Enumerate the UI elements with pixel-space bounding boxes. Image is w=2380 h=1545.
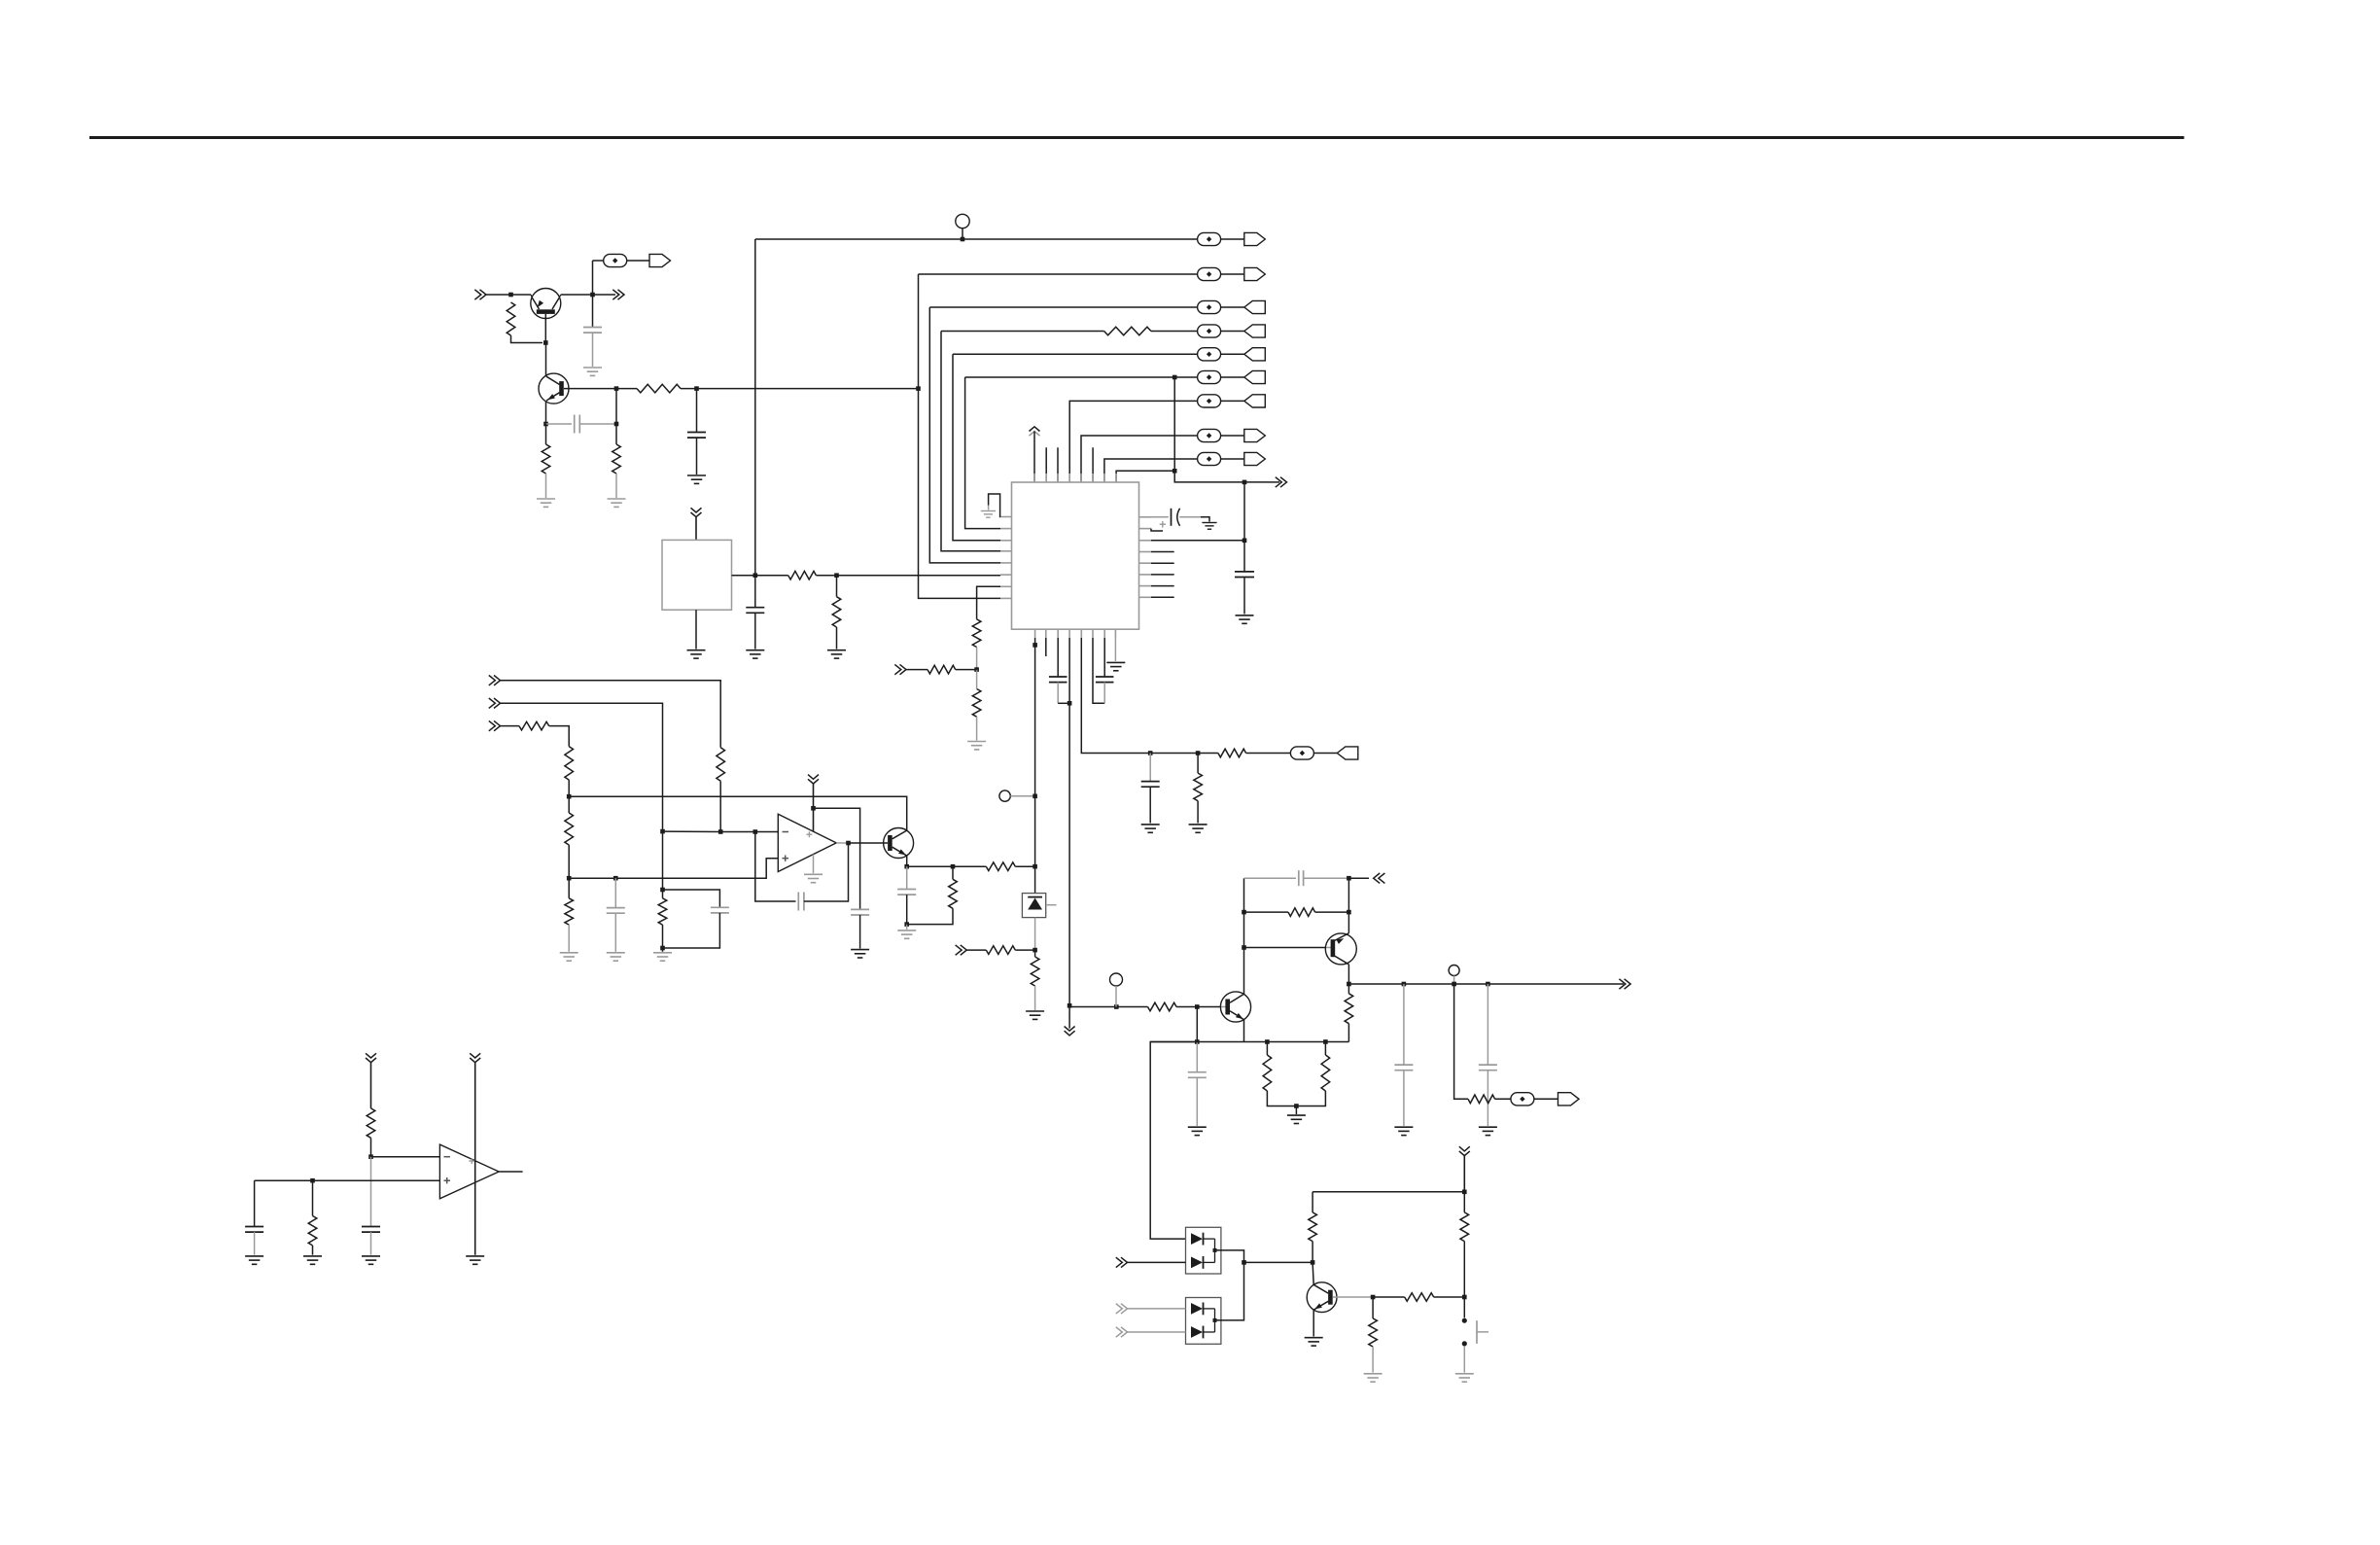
resistor R8 [972,619,981,648]
resistor R23 [1148,1002,1177,1011]
wire [719,781,721,831]
junction [1402,982,1407,987]
junction [904,922,909,927]
output chevron [1619,979,1630,989]
wire [662,890,664,898]
pin [1139,516,1152,518]
wire [486,294,531,296]
transistor Q6 [1307,1282,1337,1313]
wire opamp-gnd [813,855,815,874]
resistor R22 [1031,957,1039,986]
junction [718,829,723,834]
wire [549,726,570,747]
wire nc-pin [1092,447,1094,482]
wire bus x777 [754,239,756,576]
wire [1347,1024,1349,1042]
ground [746,650,764,658]
junction [1371,1295,1376,1300]
wire [1196,1007,1198,1042]
wire [1034,986,1036,1010]
pin [1139,574,1152,576]
wire [592,261,594,328]
wire nc-pin [1057,447,1059,482]
wire bus L4 [953,354,1000,541]
wire [593,294,616,296]
junction [508,293,513,298]
capacitor C20 [245,1227,263,1233]
power symbol [691,508,702,540]
ground [827,650,846,658]
junction [916,386,921,391]
resistor R24 [1263,1055,1272,1091]
transistor Q3 [884,828,914,859]
wire [1128,1261,1186,1263]
wire [370,1157,372,1226]
wire [1325,947,1331,949]
capacitor C13 [851,909,869,915]
wire D2 out [1215,1250,1244,1263]
wire tp-branch [1454,984,1468,1099]
wire [696,438,698,474]
connector row4 [1198,325,1266,337]
diode module D3 [1186,1298,1221,1345]
ground [1364,1374,1382,1382]
wire [1015,949,1034,951]
wire pin R1 [1151,516,1169,518]
transistor Q4 [1220,992,1250,1022]
resistor R11 [1194,773,1203,801]
capacitor C12 [798,893,804,911]
wire railA [569,796,907,830]
junction [368,1154,373,1159]
wire [254,1180,256,1226]
junction [1311,1260,1315,1265]
connector oval [1511,1093,1534,1106]
junction [660,829,665,834]
resistor R29 [1460,1212,1469,1242]
junction [1242,480,1247,485]
capacitor C7 [1049,677,1067,683]
input chevron [956,945,967,955]
diode module D1 [1022,894,1056,918]
wire pin L1 [989,494,1000,517]
wire [662,925,664,948]
junction [1067,1003,1072,1008]
connector flag [1337,747,1358,759]
wire [1373,1296,1405,1298]
wire bus L1 [919,274,1001,598]
op-amp U3 [439,1144,499,1199]
junction [1032,643,1037,648]
wire Q4 emitter [1243,1020,1245,1042]
wire [1243,482,1245,571]
wire [1198,753,1218,755]
wire [1128,1331,1186,1333]
resistor R33 [308,1216,317,1246]
wire [1312,1192,1313,1212]
wire [732,575,755,577]
wire node AF [697,388,919,390]
crystal module X1 [662,540,732,610]
junction [1067,701,1072,706]
test point TP1 [956,214,969,228]
resistor R26 [1288,908,1315,917]
resistor R4 [637,384,681,393]
wire Q3 emitter [906,856,908,866]
connector row3 [1198,300,1266,313]
wire [1015,865,1034,867]
wire row-1036 [1069,1006,1147,1008]
wire [1176,1006,1221,1008]
wire [614,913,616,952]
pin [1103,629,1105,638]
resistor R31 [1369,1318,1378,1347]
pin [1000,528,1012,530]
wire [1315,911,1349,913]
power symbol [1459,1146,1470,1192]
wire Q6 emitter [1312,1310,1314,1336]
resistor R16 [565,747,574,781]
wire row6 [965,376,1198,378]
wire [545,424,547,444]
ground [608,499,626,507]
junction [1347,982,1351,987]
wire [568,845,570,878]
op-amp U2 [778,814,836,871]
wire [568,878,570,898]
test point TP3 [1110,973,1123,986]
wire [859,915,861,949]
pin [1139,528,1152,530]
wire nc-pin [1151,574,1174,576]
wire [1068,1005,1070,1028]
pin [1092,474,1094,482]
junction [1032,948,1037,953]
ground [607,953,625,961]
resistor R2 [542,444,550,474]
wire [1034,918,1036,951]
wire [312,1180,314,1215]
junction [1462,1295,1467,1300]
wire [966,949,986,951]
capacitor C11 [711,907,729,913]
wire [627,260,649,262]
wire nc-pin [1151,551,1174,553]
pin [1139,551,1152,553]
wire [1403,984,1405,1065]
resistor R27 [1468,1095,1495,1104]
input chevron [489,676,501,685]
ground [653,953,672,961]
wire [1243,578,1245,614]
junction [974,667,979,672]
wire res-loop [1244,911,1289,913]
junction [961,237,965,242]
wire railB [814,808,860,909]
resistor R12 [1218,749,1246,757]
wire [615,389,617,424]
wire [906,866,908,889]
ground [1202,523,1216,530]
junction [543,422,548,427]
ground [1106,662,1125,670]
power symbol [470,1053,480,1254]
wire cap-line [663,890,720,907]
wire [1201,517,1209,522]
wire [592,333,594,367]
ground [687,650,706,658]
ground [245,1256,263,1264]
wire [1174,377,1267,482]
junction [1452,982,1456,987]
wire [976,670,978,689]
junction [567,794,572,799]
wire nc-pin [1151,562,1174,564]
wire output [836,842,848,844]
wire [695,610,697,649]
pin [1103,474,1105,482]
connector row6 [1198,370,1266,383]
junction [1242,945,1246,950]
capacitor C2 [575,415,580,434]
wire drop [1150,1042,1197,1240]
wire Q2 collector [545,343,547,376]
wire [907,865,953,867]
wire [1295,1106,1297,1115]
resistor R18 [565,898,574,925]
connector row8 [1198,429,1266,441]
resistor R28 [1309,1212,1317,1242]
junction [1148,751,1153,755]
junction [310,1178,315,1183]
wire [1115,986,1117,1007]
wire pin B8 [1114,638,1116,661]
wire pin B6 [1093,638,1104,703]
ground [1236,615,1254,623]
junction [753,573,758,578]
transistor Q2 [539,373,569,404]
wire pin B3 [1057,638,1059,677]
pin [1115,474,1117,482]
wire [906,895,908,925]
input chevron [1116,1304,1128,1314]
resistor R14 [658,898,667,925]
wire pin-up [1116,471,1174,482]
junction [614,386,619,391]
pin [1045,474,1047,482]
resistor R1 [507,302,515,335]
pin [1139,596,1152,598]
wire [568,796,570,813]
junction [1486,982,1490,987]
ground [1141,825,1160,832]
input chevron [894,664,906,674]
wire [906,669,927,671]
wire [254,1232,256,1255]
wire [1324,1042,1326,1056]
junction [614,422,619,427]
junction [694,386,699,391]
ground [967,742,986,750]
wire [956,669,977,671]
pin [1080,629,1082,638]
junction [1323,1039,1328,1044]
capacitor C8 [1096,677,1114,683]
junction [1195,1004,1200,1009]
wire [953,865,986,867]
resistor R13 [717,748,725,782]
wire [370,1232,372,1255]
resistor R5 [1104,327,1151,335]
pin [1068,629,1070,638]
diode module D2 [1186,1227,1221,1274]
wire [988,506,990,510]
transistor Q5 [1325,933,1356,965]
wire pin B1 [1034,638,1036,894]
wire output [499,1171,523,1173]
wire [1463,1192,1465,1212]
wire [836,576,838,597]
input chevron [489,698,501,708]
ground [1287,1115,1306,1123]
resistor R3 [612,444,621,474]
wire Q2 emitter [545,402,547,425]
wire [696,389,698,432]
connector row9 [1198,452,1266,465]
wire [681,388,697,390]
wire [1196,1077,1198,1126]
resistor R15 [519,721,549,730]
junction [811,806,816,811]
wire Q5 emitter [1347,965,1349,994]
wire [976,717,978,740]
wire [616,388,637,390]
wire feedback-left [755,832,796,902]
ground [851,950,869,958]
wire [1534,1098,1558,1100]
junction [660,946,665,951]
pin [1057,474,1059,482]
wire minus-line [663,830,779,832]
capacitor C1 [583,328,602,334]
pin [1000,550,1012,552]
capacitor C6 [1235,572,1254,578]
pin [1080,474,1082,482]
wire [1057,683,1059,704]
wire Q2 base [564,388,616,390]
wire [1403,1071,1405,1126]
power symbol V+ [1030,427,1040,482]
input chevron [1374,873,1385,883]
ground [897,931,916,938]
junction [1196,751,1201,755]
ground [1305,1338,1323,1346]
capacitor C9 [1141,782,1160,788]
transistor Q1 [531,289,561,319]
wire [804,843,849,901]
wire [1244,1261,1313,1263]
resistor R32 [367,1108,375,1138]
wire [1487,1071,1488,1126]
switch SW1 [1462,1318,1488,1347]
pin [1114,629,1116,638]
resistor R17 [565,813,574,845]
ground [1189,825,1207,832]
power symbol [808,775,819,832]
pin [1034,629,1036,638]
wire [1197,801,1199,824]
wire out-row [1348,983,1606,985]
power symbol [1065,1027,1075,1036]
wire [1196,1042,1198,1072]
wire [1149,754,1151,782]
wire nc-pin [1151,585,1174,587]
input chevron [1116,1257,1128,1267]
wire [1267,1091,1325,1106]
pin [1045,629,1047,638]
page top rule [89,136,2185,139]
wire [568,925,570,952]
ground [303,1256,322,1264]
capacitor C16 [1299,870,1304,886]
wire pin L7 [977,586,1000,619]
wire bus L3 [941,332,1000,551]
wire [836,627,838,650]
wire [1010,795,1034,797]
wire nc-pin [1045,447,1047,482]
pin [1033,474,1035,482]
ground [1455,1374,1474,1382]
wire [1034,950,1036,957]
wire bottom rail [1150,1041,1348,1043]
wire [561,294,593,296]
junction [846,841,851,846]
input chevron AF-IN [474,290,486,299]
wire row3 [929,306,1197,308]
wire minus [371,1156,440,1158]
wire bus L2 [929,307,1000,563]
wire D3 out [1215,1262,1244,1320]
wire [1179,516,1201,518]
wire cap-loop [1244,877,1297,879]
wire [1463,1347,1465,1373]
ground [362,1256,380,1264]
resistor R25b [1345,994,1353,1024]
wire [1266,1042,1268,1056]
IC U1 [1012,482,1139,629]
input chevron [1116,1327,1128,1337]
resistor R10 [927,665,956,674]
junction [1195,1039,1200,1044]
wire [755,575,788,577]
capacitor C10 [607,908,625,914]
resistor R19 [986,862,1015,871]
wire [1372,1347,1374,1373]
pin [1092,629,1094,638]
wire Q6 collector [1312,1262,1313,1284]
wire [816,575,836,577]
power symbol [366,1053,376,1108]
capacitor C4 [746,608,764,614]
junction [1462,1190,1467,1195]
ground [687,475,706,483]
capacitor C18 [1479,1065,1497,1071]
pin [1000,562,1012,564]
wire [1313,753,1337,755]
wire [1606,983,1624,985]
junction [660,888,665,893]
wire [663,913,720,948]
